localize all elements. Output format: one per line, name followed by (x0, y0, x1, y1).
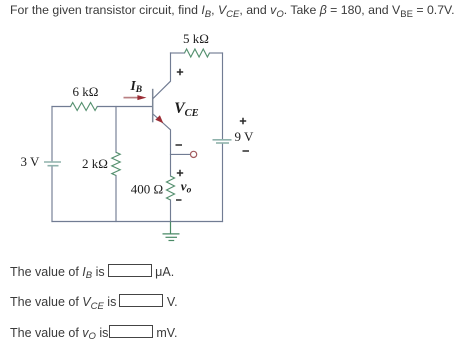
svg-text:5 kΩ: 5 kΩ (183, 31, 209, 46)
svg-text:IB: IB (130, 78, 143, 95)
svg-text:VCE: VCE (174, 100, 198, 119)
svg-text:400 Ω: 400 Ω (131, 182, 163, 197)
svg-text:2 kΩ: 2 kΩ (82, 156, 108, 171)
svg-text:vo: vo (181, 178, 192, 195)
svg-text:9 V: 9 V (235, 129, 255, 144)
svg-text:3 V: 3 V (20, 154, 40, 169)
svg-text:6 kΩ: 6 kΩ (72, 84, 98, 99)
